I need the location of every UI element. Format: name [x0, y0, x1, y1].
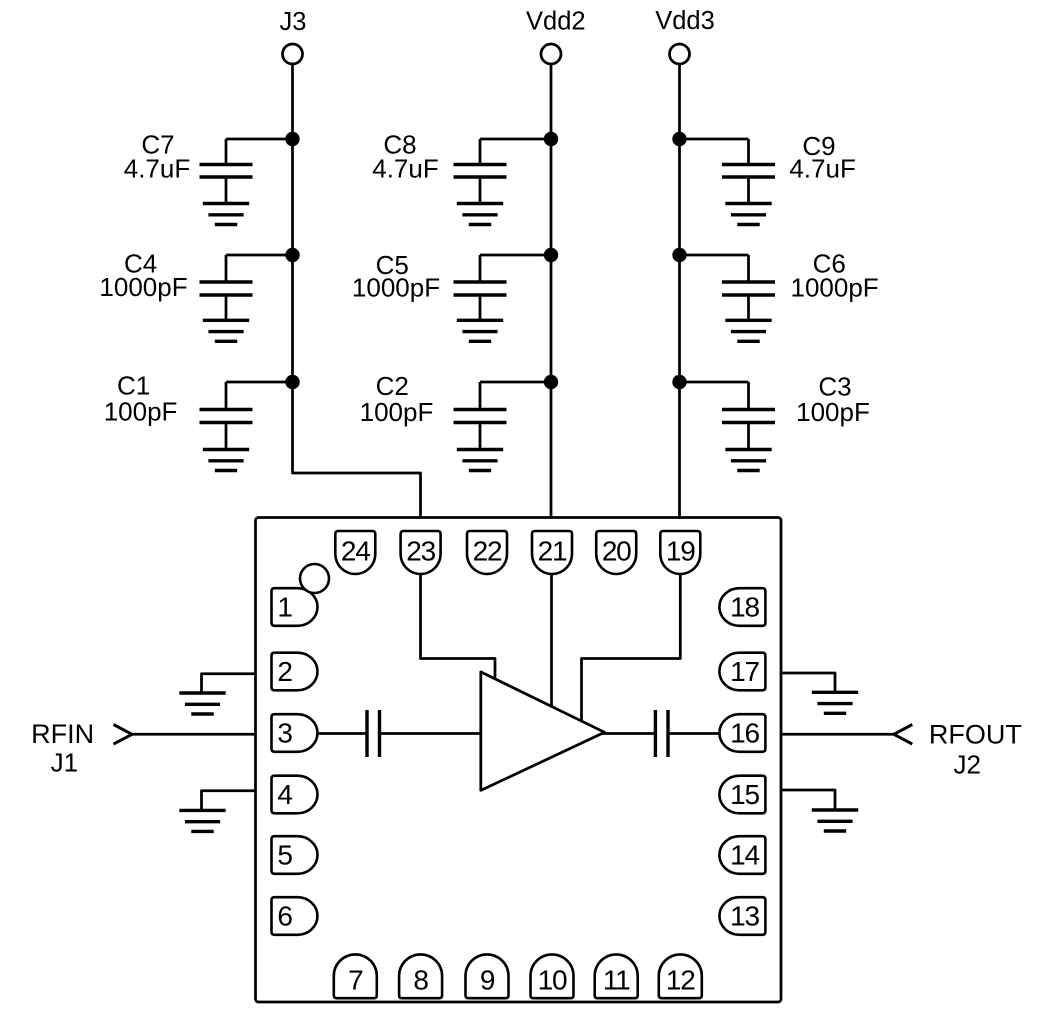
svg-text:4.7uF: 4.7uF	[372, 154, 439, 184]
svg-text:4: 4	[277, 779, 292, 810]
svg-text:1000pF: 1000pF	[791, 273, 879, 303]
svg-text:J1: J1	[51, 748, 78, 778]
svg-text:J3: J3	[280, 8, 307, 36]
svg-text:4.7uF: 4.7uF	[124, 154, 191, 184]
svg-text:11: 11	[603, 965, 630, 996]
svg-text:19: 19	[666, 536, 695, 567]
svg-text:8: 8	[413, 965, 428, 996]
svg-text:4.7uF: 4.7uF	[789, 153, 856, 183]
svg-text:20: 20	[602, 536, 631, 567]
svg-text:22: 22	[473, 536, 502, 567]
svg-text:9: 9	[480, 965, 495, 996]
svg-text:7: 7	[348, 965, 363, 996]
svg-text:12: 12	[666, 965, 695, 996]
svg-text:Vdd3: Vdd3	[655, 7, 715, 35]
svg-text:15: 15	[730, 779, 759, 810]
svg-text:1000pF: 1000pF	[352, 273, 440, 303]
svg-text:100pF: 100pF	[360, 397, 434, 427]
svg-text:14: 14	[730, 840, 759, 871]
svg-text:16: 16	[730, 718, 759, 749]
svg-text:2: 2	[277, 656, 292, 687]
svg-text:6: 6	[277, 901, 292, 932]
svg-text:13: 13	[730, 901, 759, 932]
svg-text:1: 1	[277, 592, 292, 623]
svg-text:RFIN: RFIN	[31, 719, 94, 749]
svg-text:5: 5	[277, 840, 292, 871]
svg-text:100pF: 100pF	[796, 397, 870, 427]
svg-text:1000pF: 1000pF	[99, 272, 187, 302]
svg-text:18: 18	[730, 592, 759, 623]
svg-text:21: 21	[538, 536, 567, 567]
svg-text:10: 10	[538, 965, 567, 996]
svg-text:3: 3	[277, 718, 292, 749]
svg-text:100pF: 100pF	[104, 397, 178, 427]
svg-text:24: 24	[341, 536, 370, 567]
svg-text:17: 17	[730, 656, 759, 687]
svg-text:Vdd2: Vdd2	[526, 7, 586, 35]
svg-text:J2: J2	[953, 750, 980, 780]
svg-text:23: 23	[406, 536, 435, 567]
svg-text:RFOUT: RFOUT	[929, 719, 1022, 749]
